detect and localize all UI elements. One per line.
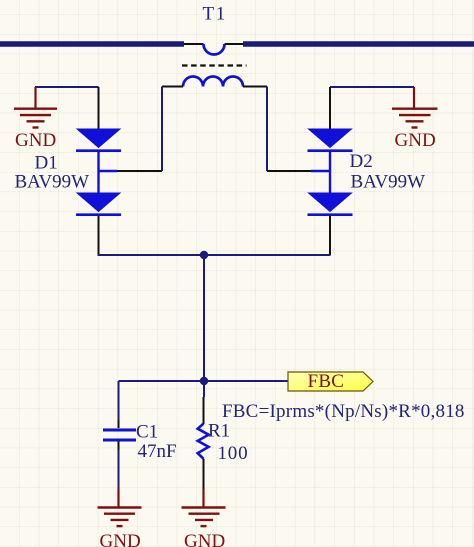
D2 mid stub [311, 170, 330, 172]
D1 pin 1 [98, 87, 100, 129]
D1 mid pin [117, 170, 162, 172]
bus left segment [0, 41, 184, 47]
ground GND top-left [14, 87, 57, 128]
wire bottom rail [98, 254, 331, 256]
wire to C1 [118, 381, 120, 420]
node junction FBC [200, 377, 208, 385]
svg-text:D1: D1 [35, 153, 58, 174]
C1 pin top [118, 420, 120, 428]
capacitor C1 [103, 420, 136, 450]
D1 diode B cathode bar [76, 213, 121, 216]
diode D2 (dual BAV99W) [267, 87, 353, 255]
svg-text:FBC=Iprms*(Np/Ns)*R*0,818: FBC=Iprms*(Np/Ns)*R*0,818 [222, 401, 465, 422]
D2 mid pin [267, 170, 311, 172]
svg-text:T1: T1 [203, 4, 227, 25]
wire secondary left to D1 mid [161, 87, 163, 172]
D2 internal link [329, 152, 331, 193]
svg-text:GND: GND [15, 130, 56, 151]
D1 pin 3 [98, 216, 100, 255]
svg-text:BAV99W: BAV99W [351, 172, 426, 193]
D2 pin 1 [329, 87, 331, 129]
svg-text:D2: D2 [350, 151, 373, 172]
T1 core dashed line [182, 64, 247, 66]
port FBC [288, 371, 373, 392]
R1 zigzag [198, 424, 209, 459]
resistor R1 [198, 397, 209, 489]
ground GND top-right [392, 87, 438, 128]
C1 plate bottom [103, 439, 136, 442]
T1 secondary pin right [243, 86, 267, 88]
C1 plate top [103, 429, 136, 432]
svg-text:GND: GND [184, 531, 225, 547]
diode D1 (dual BAV99W) [76, 87, 162, 255]
D1 diode B triangle [77, 193, 120, 212]
C1 pin bottom [118, 442, 120, 451]
svg-text:GND: GND [100, 531, 141, 547]
D1 diode A triangle [77, 129, 120, 148]
R1 pin bottom [203, 459, 205, 489]
D2 diode B cathode bar [308, 213, 353, 216]
D1 mid stub [99, 170, 118, 172]
R1 pin top [203, 397, 205, 424]
bus right segment [243, 41, 474, 47]
D1 diode A cathode bar [76, 149, 121, 152]
wire secondary right to D2 mid [266, 87, 268, 172]
T1 secondary pin left [162, 86, 183, 88]
svg-text:C1: C1 [136, 422, 158, 443]
D2 diode A triangle [309, 129, 352, 148]
T1 primary winding arc [204, 44, 225, 55]
node junction bottom rail [200, 251, 208, 259]
svg-text:FBC: FBC [308, 371, 345, 392]
wire top-left GND to D1 [35, 86, 99, 88]
D1 internal link [97, 152, 99, 193]
svg-text:GND: GND [395, 130, 436, 151]
svg-text:BAV99W: BAV99W [15, 172, 90, 193]
T1 primary pin right [225, 43, 244, 45]
D2 pin 3 [329, 216, 331, 255]
T1 primary pin left [184, 43, 204, 45]
transformer T1 [162, 44, 267, 87]
D2 diode B triangle [309, 193, 352, 212]
wire center vertical [203, 255, 205, 381]
wire C1 to GND [118, 450, 120, 489]
wire FBC horizontal [119, 380, 289, 382]
ground GND bottom-left [98, 489, 142, 526]
svg-text:47nF: 47nF [138, 441, 177, 462]
ground GND bottom-right [182, 489, 226, 526]
svg-text:100: 100 [218, 443, 249, 464]
D2 diode A cathode bar [308, 149, 353, 152]
svg-text:R1: R1 [208, 421, 230, 442]
T1 secondary winding arcs [183, 77, 243, 87]
wire top-right GND to D2 [330, 86, 414, 88]
wire R1 top [203, 381, 205, 397]
